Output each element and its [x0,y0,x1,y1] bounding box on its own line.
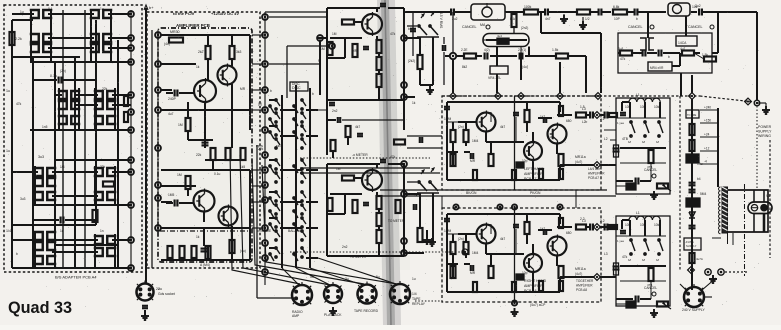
dotted line below lower amp [415,300,442,302]
wire f2 internals [632,52,642,54]
switch contact SL7 [34,242,43,250]
svg-text:2u2: 2u2 [452,17,458,21]
svg-text:L3: L3 [604,252,608,256]
wire tick 1 [700,122,718,124]
node n-c7 [401,238,407,244]
capacitor Ce4-lower [543,229,545,235]
svg-text:b: b [636,17,638,21]
svg-text:(2n2): (2n2) [521,26,528,30]
power dashed vline left [679,96,681,270]
switch bank extra contact b5 [293,210,295,212]
wire: contact feeds lower [12,171,38,173]
resistor Re9-lower [576,225,586,230]
svg-text:+240: +240 [704,106,711,110]
svg-text:2.2: 2.2 [580,217,585,221]
wire lower base1 [447,233,476,235]
svg-text:PLAYBACK: PLAYBACK [324,313,342,317]
capacitor Ce2-lower [470,265,472,271]
resistor R27 [377,230,382,243]
svg-text:1.5k: 1.5k [552,48,559,52]
wire tick 3 [700,150,718,152]
capacitor Cg3 [689,225,696,227]
svg-text:(2n): (2n) [458,237,464,241]
svg-text:1M4: 1M4 [472,251,479,255]
arrow mark N4 [431,168,434,172]
switch contact SL5 [94,192,103,200]
DIN socket tape-record [358,285,377,304]
switch bank extra contact a0 [269,105,271,107]
node bus C pin 10 [262,197,268,203]
wire: E to F mid links [615,129,617,131]
capacitor C15 [413,204,415,210]
capacitor Cf-el-treble [613,265,620,267]
wire: links 404 to E-block [407,135,442,137]
lamp LP1 [748,202,772,214]
switch contact S10 [94,101,103,109]
capacitor Ce1-upper [444,106,450,108]
transistor TR5 [362,14,382,34]
node amp pcb pin 1 [155,32,161,38]
wire: b+ second rail [151,30,153,268]
ground Gf-bass [653,191,655,195]
node selector pin 3 [128,45,134,51]
node amp pcb pin 7 [155,195,161,201]
resistor R23 [328,198,333,211]
switch contact SL4 [94,168,103,176]
transistor TRe2-upper [524,142,542,160]
switch bank contact A5 [275,159,277,161]
capacitor C3 (240P) [174,90,176,97]
svg-text:TO CRE: TO CRE [687,114,697,117]
svg-text:PCB A8: PCB A8 [576,288,587,292]
switch contact Sf0-bass [630,121,632,123]
amplifier PCB inner dash-dot box [158,28,252,262]
transistor TRe2-lower [524,254,542,272]
resistor R5 [103,182,114,187]
capacitor Ce4-upper [543,117,545,123]
resistor R9 [186,118,191,131]
switch contact S9 [94,91,103,99]
svg-text:3u3: 3u3 [38,155,44,159]
resistor R26 [377,213,382,226]
capacitor Ce3-upper [513,112,519,114]
svg-text:AMPLIFIER: AMPLIFIER [576,284,593,288]
capacitor C21 [698,9,700,16]
tone net frame treble [616,216,670,306]
svg-text:22k: 22k [196,153,202,157]
box blue treble [626,301,636,308]
diamond node G3 [688,267,695,274]
box TO-CRE [686,110,699,118]
svg-text:A (M4): A (M4) [200,263,210,267]
wire mid vertical lower [514,208,516,302]
svg-text:47k: 47k [390,32,396,36]
resistor R33 [620,51,632,56]
svg-text:b/l: b/l [656,140,659,144]
svg-text:TAPE: TAPE [412,297,421,301]
wire upper fb [447,151,458,153]
capacitor C23 [519,53,521,60]
capacitor C-mid413 [410,28,416,30]
inductor L-bass [629,98,660,102]
wire: C cross links [269,99,276,101]
diamond node E1 [594,112,601,119]
svg-text:BALANCE: BALANCE [288,229,304,233]
wire E right lower [600,226,616,228]
wire: contact feeds upper [12,13,34,15]
node n-c4 [401,94,407,100]
capacitor C8 [380,3,386,5]
diamond node E3 [594,224,601,231]
svg-text:Quad 33: Quad 33 [8,299,72,317]
switch contact Sf1-bass [644,121,646,123]
svg-text:L4/4 conn: L4/4 conn [588,167,602,171]
svg-text:AMPLIFIER: AMPLIFIER [524,172,543,176]
terminal circle G5 [718,269,724,275]
capacitor Ce1-lower [444,218,450,220]
switch contact Sf0-treble [630,239,632,241]
svg-text:1u: 1u [100,7,104,11]
switch bank contact B9 [301,217,303,219]
wire: selector bus horizontals [12,56,80,58]
node n-c2 [401,35,407,41]
svg-text:1u: 1u [60,229,64,233]
ground G-rail-end [757,102,766,104]
wire H right [441,196,443,208]
svg-text:2.2(1): 2.2(1) [518,48,526,52]
resistor Re9-upper [576,113,586,118]
diamond node D5 [595,93,602,100]
svg-text:10k: 10k [625,105,631,109]
node selector pin 5 [128,92,134,98]
resistor Re12-upper [559,106,563,116]
svg-text:AMPLIFIER: AMPLIFIER [524,284,543,288]
node E-low top 3 [512,204,517,209]
switch bank contact A3 [275,125,277,127]
capacitor C11 [337,117,339,123]
svg-text:VR4 27L: VR4 27L [488,76,501,80]
svg-text:(4u7): (4u7) [575,160,582,164]
wire mains feeds [702,278,716,290]
wire TR1 base [166,92,173,94]
switch contact SL2 [34,178,43,186]
resistor R29 [613,10,627,15]
switch bank extra contact b7 [293,253,295,255]
resistor R14 [328,42,333,55]
svg-text:10k: 10k [654,223,660,227]
resistor Re7-upper [525,110,530,122]
resistor R19b [418,228,423,242]
wire f1 left [452,12,454,53]
switch module DISC box [290,82,308,91]
svg-text:L1: L1 [636,93,640,97]
ground mono [144,310,146,315]
svg-text:10k: 10k [654,105,660,109]
wire: selector extra verticals [62,10,64,268]
svg-text:1M: 1M [178,123,183,127]
switch bank extra contact b3 [293,165,295,167]
resistor Rf1-bass [649,150,654,163]
capacitor C7 [142,305,148,307]
balance control box VR1 [471,4,505,20]
resistor R15 [353,44,358,57]
diamond node D1 [450,93,457,100]
wire lower misc [33,219,59,221]
switch F2-S1 [640,38,646,50]
resistor R17 [377,57,382,70]
dark box BLUE-G [686,198,700,207]
svg-text:MA: MA [480,23,486,27]
wire: center amp frame lower [326,164,328,256]
transformer T1 core [722,187,728,233]
svg-text:b: b [16,252,18,256]
box blue bass [626,183,636,190]
wire n-c1 [319,41,321,95]
wire: bundle diagonals [230,150,300,284]
wire B lower mid [187,189,189,196]
resistor Rc2 [180,246,185,258]
wire: power left rail [691,99,693,290]
potentiometer Pf-bass [657,184,668,189]
svg-text:AMP: AMP [292,314,300,318]
switch bank extra contact a6 [269,223,271,225]
svg-text:B/S ADAPTER PCB A4: B/S ADAPTER PCB A4 [55,275,97,280]
svg-text:1.5k: 1.5k [702,53,708,57]
resistor Rf1-treble [649,268,654,281]
resistor Re2-upper [464,130,469,142]
node E-low top 1 [453,204,458,209]
svg-text:22k: 22k [258,147,264,151]
wire G bottom [691,259,693,286]
resistor Re7-lower [525,222,530,234]
svg-text:MR: MR [470,271,476,275]
transformer core hatch [722,187,728,190]
svg-text:1.5: 1.5 [580,105,585,109]
resistor Re6-upper [512,170,516,180]
svg-text:b+: b+ [149,5,154,10]
wire drops to rail [680,73,682,96]
switch bank extra contact a3 [269,165,271,167]
svg-text:14CA: 14CA [678,41,687,45]
switch contact Sf1-treble [644,239,646,241]
resistor R16 [377,40,382,53]
svg-text:SUPPLY: SUPPLY [758,130,772,134]
svg-text:b/l: b/l [656,258,659,262]
wire: drops from switch bank [282,268,300,286]
capacitor Cf0-bass [620,112,626,114]
svg-text:1/2: 1/2 [585,17,590,21]
wire: contact column rails mid [58,88,60,130]
switch bank contact A9 [275,217,277,219]
svg-text:3u3: 3u3 [20,197,26,201]
transistor TRe1-lower [477,225,496,244]
svg-text:PCB A7: PCB A7 [524,177,537,181]
wire treble coil drops [629,220,631,236]
switch bank contact A8 [275,204,277,206]
resistor Re8-upper [559,154,564,166]
power dashed vline right [769,140,771,258]
node bus C pin 2 [262,32,268,38]
pot circle VR1 [482,7,492,17]
switch contact S12 [94,116,103,124]
svg-text:1u/M: 1u/M [444,117,452,121]
resistor R19 [418,55,423,69]
svg-text:SUPPLY: SUPPLY [686,244,697,248]
wire tick 2 [700,136,718,138]
node n-c3 [401,82,407,88]
resistor Re10-upper [539,169,543,179]
svg-text:b/l: b/l [642,140,645,144]
box MR4 [648,62,672,71]
svg-text:b: b [270,89,272,93]
wire TR5 [354,21,362,23]
svg-text:CANCEL: CANCEL [628,25,643,29]
dashed link right of terminals [725,271,748,273]
node selector pin 1 [128,11,134,17]
capacitor CE-out-upper [604,112,606,119]
capacitor Cf-el-bass [613,147,620,149]
svg-text:1u: 1u [6,149,10,153]
svg-text:PCB A8: PCB A8 [524,289,537,293]
svg-text:10p: 10p [522,271,528,275]
DIN socket playback [324,285,342,303]
wire: lower top rail [447,213,560,215]
node amp pcb pin 2 [155,61,161,67]
wire upper mid [490,112,492,122]
svg-text:MR: MR [470,159,476,163]
node amp pcb pin 5 [155,145,161,151]
resistor Rg2 [690,140,695,151]
transistor TR1 [194,80,216,102]
resistor Re8-lower [559,266,564,278]
svg-text:10k: 10k [625,223,631,227]
wire lower out [562,226,572,228]
svg-text:14u: 14u [697,162,703,166]
svg-text:1k: 1k [196,65,200,69]
svg-text:1k7: 1k7 [540,227,545,231]
switch bank contact B8 [301,204,303,206]
capacitor C12 [357,133,363,135]
switch bank extra contact a7 [269,253,271,255]
svg-text:680: 680 [566,119,572,123]
node bus C pin 7 [262,152,268,158]
resistor Re5-lower [473,282,477,292]
resistor R12 [230,240,235,253]
resistor Re1-lower [451,242,456,254]
resistor R6 (MR30) [169,38,183,43]
svg-text:10P: 10P [614,17,620,21]
capacitor C17 [544,9,546,16]
switch contact S7 [58,91,67,99]
diamond node E4 [594,274,601,281]
switch contact S11 [58,116,67,124]
resistor R1 [10,32,15,45]
switch contact SL3 [34,192,43,200]
wire TR6 [354,177,362,179]
node selector pin 11 [128,237,134,243]
svg-text:1n5: 1n5 [42,125,48,129]
diamond node D4 [557,93,564,100]
svg-text:TO METER: TO METER [350,255,367,259]
svg-text:TAPE RECORD: TAPE RECORD [354,309,379,313]
svg-text:MA: MA [510,17,516,21]
plug supply label box [684,238,701,250]
resistor R22 [342,176,354,181]
svg-text:4u4: 4u4 [497,34,502,38]
svg-text:b4: b4 [697,177,701,181]
switch bank extra contact b2 [293,131,295,133]
ground G-d1 [582,21,584,25]
transistor TR2 [218,66,237,85]
switch bank contact A7 [275,191,277,193]
node n-c6 [401,191,407,197]
svg-text:4(2): 4(2) [484,48,490,52]
svg-text:4u7: 4u7 [680,47,685,51]
svg-text:4n7: 4n7 [545,17,551,21]
node bus C pin 1 [262,14,268,20]
resistor R35 [704,57,716,62]
svg-text:2n2: 2n2 [332,109,338,113]
wire f1 out [529,55,556,57]
wire lower fb [447,263,458,265]
switch contact SL1 [34,168,43,176]
resistor Re3-lower [451,266,456,278]
switch bank contact A4 [275,138,277,140]
wire bass coil drops [629,102,631,118]
resistor R3 [124,112,128,122]
switch contact Sf2-treble [658,239,660,241]
wire upper out [562,114,572,116]
svg-text:1k5: 1k5 [240,165,245,169]
svg-text:b4: b4 [408,27,412,31]
switch bank contact B11 [301,247,303,249]
svg-text:3k3: 3k3 [236,50,242,54]
svg-text:Gds socket: Gds socket [158,292,175,296]
capacitor Cg2 [689,189,696,191]
wire bass grid [620,147,666,149]
svg-text:2u2: 2u2 [695,4,701,8]
wire lower mid [490,224,492,234]
svg-text:b/l: b/l [628,140,631,144]
dark box MR-lower [516,274,524,280]
svg-text:MR30: MR30 [170,30,180,34]
wire tick 0 [700,109,718,111]
node bus C pin 12 [262,240,268,246]
svg-text:2u: 2u [156,287,160,291]
resistor R18 [377,74,382,87]
node n-c1 [317,35,323,41]
capacitor C25 [658,50,660,57]
wire transformer bottom [727,232,729,244]
svg-text:AMPLIFIER PCB: AMPLIFIER PCB [176,23,210,28]
svg-text:+150: +150 [704,119,711,123]
resistor Re6-lower [512,282,516,292]
svg-text:LEFT HAND: LEFT HAND [524,167,544,171]
ground H1 [332,307,334,311]
wire F to E upper [615,111,617,113]
svg-text:4k7: 4k7 [500,125,505,129]
resistor R32 [556,54,568,59]
capacitor C6 [201,248,208,250]
svg-text:PK/GN: PK/GN [530,191,541,195]
svg-text:0.1u: 0.1u [214,172,221,176]
svg-text:22k: 22k [100,165,106,169]
svg-text:1 yee: 1 yee [617,121,624,125]
svg-text:-o METER: -o METER [352,153,368,157]
svg-text:(2n): (2n) [458,125,464,129]
inductor L2 lower [609,225,617,229]
input selector unit dotted enclosure [4,5,142,272]
